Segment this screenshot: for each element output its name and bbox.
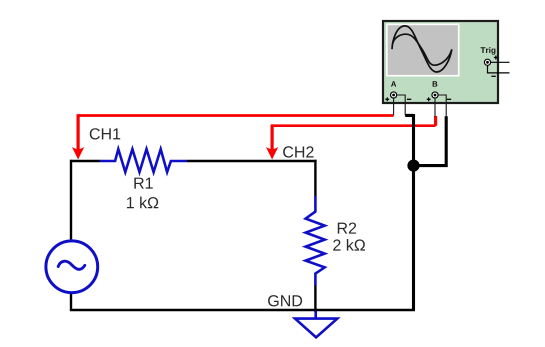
label A — [391, 81, 396, 86]
label GND — [268, 295, 302, 306]
wire A+ stub down — [393, 98, 395, 115]
wire left branch: top node down to source V1 — [70, 160, 72, 241]
source V1 (AC sine source) — [46, 241, 98, 293]
wire Trig- stub — [488, 66, 510, 73]
label B — [433, 81, 438, 86]
label R2 — [338, 223, 356, 234]
wire source bottom to bottom net — [71, 293, 415, 310]
oscilloscope screen — [386, 24, 460, 77]
value 1 kOhm — [127, 197, 158, 209]
terminal Trig — [484, 59, 490, 65]
oscilloscope XSC1 body — [383, 21, 498, 103]
wire Trig+ stub — [491, 61, 510, 63]
plus sign B — [427, 97, 431, 101]
plus sign Trig — [494, 56, 498, 60]
wire R2 bottom lead (black) to bottom net — [314, 285, 316, 312]
wire scope B- drop to junction — [414, 116, 447, 165]
plus sign A — [385, 97, 389, 101]
minus sign A — [407, 98, 411, 100]
ground GND symbol — [295, 311, 337, 337]
wire CH1 probe (red) from scope A+ to node at top-left — [72, 114, 394, 159]
wire A- stub — [397, 95, 405, 115]
node junction dot — [407, 160, 419, 172]
label CH1 — [90, 128, 120, 139]
terminal A — [391, 92, 397, 98]
wire CH2 probe (red) from scope B+ to node at R2 top — [266, 116, 436, 160]
resistor R2 — [306, 196, 325, 286]
label CH2 — [283, 146, 313, 157]
waveform trace small sine — [393, 34, 452, 65]
terminal B — [432, 92, 438, 98]
wire B- stub — [438, 95, 446, 117]
resistor R1 — [100, 149, 187, 172]
waveform trace big sine — [392, 26, 452, 72]
minus sign Trig — [491, 75, 495, 77]
wire R2 top lead (black) — [314, 160, 316, 197]
minus sign B — [447, 98, 451, 100]
wire B+ stub down — [434, 98, 436, 117]
wire top net V1+ to R1 to R2 top — [71, 160, 317, 162]
value 2 kOhm — [333, 239, 365, 251]
label R1 — [134, 178, 152, 189]
wire scope ground drop: A- to junction to bottom net — [405, 114, 413, 310]
label Trig — [481, 47, 496, 55]
